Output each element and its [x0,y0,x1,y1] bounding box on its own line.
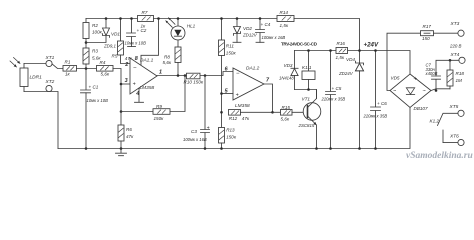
node C6 top [374,49,377,52]
svg-text:−: − [236,71,240,77]
resistor R15 [273,105,293,122]
node R11 rail [220,17,223,20]
svg-text:R10 150к: R10 150к [184,80,204,85]
node HL1 rail [177,17,180,20]
relay coil K1.1 [302,51,315,90]
resistor R6 [118,125,134,141]
node K1.1 bottom [307,88,310,91]
svg-text:LM358: LM358 [140,85,155,91]
node input junction [85,67,88,70]
node VD1 rail [105,17,108,20]
node C2 rail [130,17,133,20]
svg-text:VT1: VT1 [302,96,311,101]
svg-text:+ C6: + C6 [377,101,387,106]
svg-text:R6: R6 [126,127,132,132]
photoresistor LDR1 [10,58,42,92]
wire pin5 [222,93,234,95]
capacitor C5 [321,51,346,149]
svg-text:R12: R12 [229,116,238,121]
svg-text:47к: 47к [126,134,134,139]
svg-text:LDR1: LDR1 [30,75,43,81]
resistor R14 [277,10,294,28]
wire LDR1 top to XT1 [24,63,46,65]
svg-text:LM358: LM358 [235,103,250,109]
svg-text:1N4148: 1N4148 [279,75,294,80]
svg-text:XT5: XT5 [449,104,459,110]
svg-text:DA1.1: DA1.1 [140,58,154,64]
svg-text:10мк х 10В: 10мк х 10В [125,41,147,46]
node output R12 R15 [271,111,274,114]
svg-text:R16: R16 [337,41,346,46]
wire XT4 to C7 R18 [436,60,459,76]
svg-text:1,5к: 1,5к [280,23,289,28]
node C1 ground [85,147,88,150]
wire R4 to pin3 column [113,69,121,126]
svg-text:150к: 150к [154,116,165,121]
terminal XT5 [449,104,465,116]
resistor R16 [336,41,348,60]
capacitor C6 [363,51,388,149]
wire DA1.2 output down [264,84,273,112]
svg-text:150: 150 [422,36,430,41]
wire top rail middle segment [154,18,278,20]
wire R17 branch from bridge left vertex [387,33,421,90]
svg-text:VD3: VD3 [284,63,293,68]
svg-text:R18: R18 [456,71,465,76]
wire pin8 to rail [141,19,159,65]
transistor VT1 [298,90,321,149]
resistor R2 [83,23,103,39]
node R8 output [177,74,180,77]
diode VD3 [279,51,298,90]
wire VD3 K1.1 bottom to VT1 collector [295,90,317,99]
wire K1.2 to XT6 [443,142,458,144]
svg-text:1М: 1М [456,78,463,83]
wire R2 to R3 junction [85,39,87,49]
terminal XT4 [450,52,466,63]
node VD4 top [358,49,361,52]
svg-text:C3: C3 [191,129,197,134]
wire R12 to output column [241,111,273,113]
svg-text:DA1.2: DA1.2 [246,66,260,72]
wire R6 to ground rail [120,141,122,149]
node R13 ground [220,147,223,150]
svg-text:3: 3 [125,78,128,84]
node pin3 junction [120,83,123,86]
resistor R3 [83,48,101,64]
wire +24V horizontal line [295,51,411,75]
wire top rail right segment with corner down to +24V node [294,19,360,51]
svg-text:VD1: VD1 [111,32,120,37]
svg-text:XT6: XT6 [449,134,459,140]
resistor R8 [163,40,182,65]
resistor R7 [138,10,154,29]
svg-text:+ C5: + C5 [332,86,342,91]
svg-text:+: + [236,92,239,98]
svg-text:1к: 1к [65,71,71,76]
capacitor C4 [256,19,286,43]
svg-text:150к: 150к [226,135,237,140]
svg-text:R13: R13 [226,128,235,133]
resistor R1 [63,60,77,77]
svg-text:XT1: XT1 [45,55,55,61]
svg-text:R14: R14 [280,10,289,15]
svg-text:+ C1: + C1 [89,85,99,90]
capacitor C7 [425,62,441,88]
svg-text:ZD9,1: ZD9,1 [103,44,117,49]
svg-text:220мк х 35В: 220мк х 35В [321,97,346,102]
svg-text:VD4: VD4 [346,57,355,62]
svg-text:ZD24V: ZD24V [338,71,354,76]
node R2 R3 junction [85,41,88,44]
svg-text:R7: R7 [142,10,148,15]
wire pin3 [121,83,130,85]
node pin8 rail [157,17,160,20]
node C5 top [329,49,332,52]
capacitor C2 [125,19,147,47]
wire DA1.1 output [157,72,233,76]
svg-text:VD2: VD2 [243,26,252,31]
wire XT1 to R1 [52,64,63,69]
svg-text:5,6к: 5,6к [101,71,110,76]
node VD4 ground [358,147,361,150]
svg-text:1,5к: 1,5к [336,55,345,60]
resistor R12 [229,110,250,122]
LED HL1 [166,18,196,40]
node R9 output [184,74,187,77]
terminal XT6 [449,134,464,146]
resistor R9 with feedback wire [121,76,185,121]
svg-text:XT2: XT2 [45,79,55,85]
node C6 ground [374,147,377,150]
svg-text:1: 1 [159,69,162,75]
node C3 ground [204,147,207,150]
node R5 rail [119,17,122,20]
node R18 top [449,59,452,62]
zener VD2 [233,19,258,43]
svg-text:+: + [207,125,210,131]
svg-text:5,6к: 5,6к [163,60,172,65]
svg-text:+: + [133,82,136,88]
wire LDR1 bottom to XT2 and down to ground rail [24,92,58,149]
resistor R13 [219,128,237,144]
svg-text:R17: R17 [423,24,432,29]
wire R5 to pin2 [121,55,131,64]
terminal XT1 [45,55,55,67]
svg-text:+: + [414,76,418,82]
node VD2 rail [236,17,239,20]
svg-text:220 В: 220 В [449,44,462,49]
wire R1 to input node [77,68,97,70]
node C4 rail [259,17,262,20]
svg-text:8: 8 [135,56,138,62]
resistor R5 [112,19,133,62]
zener VD4 [338,51,364,149]
svg-text:47к: 47к [242,116,250,121]
svg-text:100мк х 16В: 100мк х 16В [262,35,286,40]
resistor R17 [421,24,434,41]
svg-text:XT4: XT4 [450,52,460,58]
node R12 left [220,111,223,114]
wire R15 to VT1 base [292,111,308,113]
svg-text:150к: 150к [226,50,237,55]
node R6 ground [120,147,123,150]
node VT1 emitter ground [315,147,318,150]
zener VD1 [86,19,120,49]
svg-text:XT3: XT3 [450,21,460,27]
capacitor C3 [183,76,210,149]
relay contact K1.2 [430,113,458,142]
node pin5 [220,92,223,95]
svg-text:R4: R4 [100,60,106,65]
wire bridge right vertex to C7 R18 bottom [431,89,450,91]
wire R3 to input node [85,64,87,90]
svg-text:HL1: HL1 [187,23,196,28]
svg-text:10мк х 10В: 10мк х 10В [87,98,109,103]
svg-text:+24V: +24V [364,41,379,48]
wire pin4 with ground [135,88,144,102]
bridge rectifier VD5 [390,74,431,111]
node K1.1 top [307,49,310,52]
svg-text:K1.1: K1.1 [302,65,312,70]
svg-text:2: 2 [124,62,128,68]
resistor R10 [184,73,204,84]
svg-text:R2: R2 [92,23,98,28]
capacitor C1 [81,85,109,149]
svg-text:vSamodelkina.ru: vSamodelkina.ru [406,151,473,161]
wire R8 to output node [177,63,179,76]
svg-text:R15: R15 [282,105,291,110]
svg-text:2SC815: 2SC815 [298,123,315,128]
svg-text:220мк х 35В: 220мк х 35В [363,113,388,118]
wire rail start down to R2 [85,19,87,23]
svg-text:ZD12V: ZD12V [242,33,258,38]
svg-text:K1.2: K1.2 [430,119,440,124]
op-amp DA1.2 [225,66,270,109]
wire top rail left segment [86,18,138,20]
svg-text:х400В: х400В [425,71,438,76]
terminal XT2 [45,79,55,91]
svg-text:100мк х 16В: 100мк х 16В [183,137,207,142]
node C7 bottom [435,89,438,92]
svg-text:VD5: VD5 [391,76,400,81]
resistor R18 [447,60,464,89]
svg-text:100к: 100к [92,30,103,35]
svg-text:R9: R9 [156,104,162,109]
node R9 feedback junction [120,110,123,113]
ground symbol below rail at R6 [116,149,127,156]
resistor R11 [219,19,237,56]
svg-text:TRV-24VDC-SC-CD: TRV-24VDC-SC-CD [281,41,318,46]
svg-text:R3: R3 [92,49,98,54]
svg-text:−: − [133,65,137,71]
resistor R4 [97,60,114,76]
wire R11 down through pin5 to R12 [221,56,223,128]
node C3 top [204,74,207,77]
svg-text:+ C4: + C4 [261,22,271,27]
wire R13 to ground [221,143,223,149]
wire R17 to XT3 [434,32,458,34]
wire bottom ground rail [58,108,410,149]
svg-text:DB107: DB107 [414,106,428,111]
terminal XT3 [450,21,465,36]
svg-text:R11: R11 [226,43,235,48]
svg-text:R5: R5 [112,53,118,58]
node C5 ground [329,147,332,150]
op-amp DA1.1 [124,56,162,97]
svg-text:+ C2: + C2 [137,28,147,33]
svg-text:R1: R1 [65,60,71,65]
svg-text:5,6к: 5,6к [281,117,290,122]
